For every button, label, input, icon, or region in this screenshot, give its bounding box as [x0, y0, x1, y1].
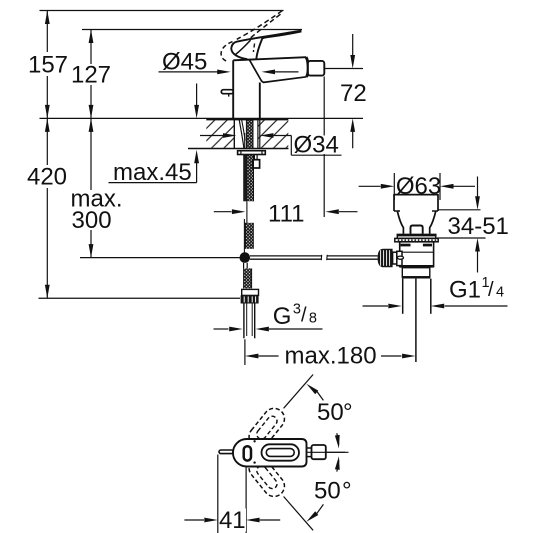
svg-text:G: G	[273, 303, 292, 330]
svg-text:300: 300	[72, 207, 112, 234]
svg-text:/: /	[488, 279, 494, 301]
svg-text:50: 50	[314, 478, 341, 505]
svg-text:8: 8	[309, 310, 317, 326]
svg-text:/: /	[301, 305, 307, 327]
svg-text:127: 127	[71, 61, 111, 88]
svg-text:°: °	[343, 399, 353, 426]
svg-text:72: 72	[340, 80, 367, 107]
svg-text:34-51: 34-51	[448, 213, 509, 240]
svg-text:420: 420	[27, 164, 67, 191]
svg-text:4: 4	[496, 285, 504, 301]
svg-text:Ø63: Ø63	[396, 173, 441, 200]
svg-text:°: °	[342, 478, 352, 505]
svg-text:max.45: max.45	[113, 159, 192, 186]
svg-text:G1: G1	[449, 277, 481, 304]
svg-text:Ø45: Ø45	[162, 49, 207, 76]
svg-text:157: 157	[28, 51, 68, 78]
svg-text:3: 3	[293, 301, 301, 317]
svg-text:Ø34: Ø34	[294, 132, 339, 159]
svg-text:111: 111	[268, 201, 304, 228]
svg-text:max.180: max.180	[285, 342, 377, 369]
svg-text:50: 50	[317, 399, 344, 426]
svg-text:41: 41	[219, 507, 246, 533]
